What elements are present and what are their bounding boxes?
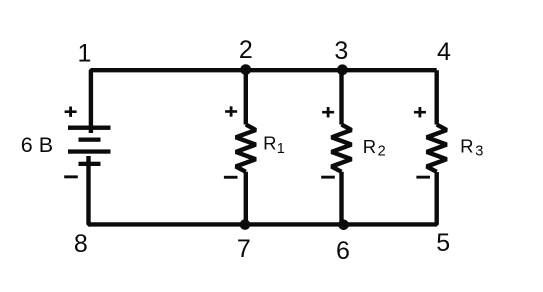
node 6 junction dot xyxy=(338,220,349,231)
svg-text:4: 4 xyxy=(437,38,451,66)
battery - polarity mark xyxy=(64,175,78,178)
resistor R3 xyxy=(427,125,447,172)
battery B1 plate short xyxy=(79,138,101,142)
node 2 junction dot xyxy=(240,64,251,75)
svg-text:R2: R2 xyxy=(363,136,386,160)
battery B1 plate short bottom (-) xyxy=(79,162,101,166)
battery + polarity mark xyxy=(65,110,77,113)
R3 + polarity mark xyxy=(414,111,426,114)
svg-text:7: 7 xyxy=(237,235,251,263)
wire R2 bottom lead xyxy=(339,172,343,225)
svg-text:3: 3 xyxy=(334,37,348,65)
svg-text:R3: R3 xyxy=(460,135,483,159)
svg-text:6: 6 xyxy=(336,237,350,265)
R2 - polarity mark xyxy=(321,176,335,179)
R1 - polarity mark xyxy=(224,176,238,179)
resistor R2 xyxy=(332,125,352,172)
wire R1 bottom lead xyxy=(244,172,248,225)
svg-text:6 В: 6 В xyxy=(21,133,53,157)
battery B1 plate long top (+) xyxy=(68,126,111,130)
R2 + polarity mark xyxy=(322,111,334,114)
svg-text:2: 2 xyxy=(239,36,253,64)
wire R2 top lead xyxy=(339,70,343,124)
R3 - polarity mark xyxy=(416,176,430,179)
node 3 junction dot xyxy=(337,64,348,75)
svg-text:5: 5 xyxy=(436,229,450,257)
wire R1 top lead xyxy=(244,70,248,124)
wire bottom rail nodes 8-7-6-5 xyxy=(89,172,437,224)
wire top rail nodes 1-2-3-4 xyxy=(91,70,437,133)
R1 + polarity mark xyxy=(225,110,237,113)
svg-text:8: 8 xyxy=(74,230,88,258)
node 7 junction dot xyxy=(240,219,251,230)
wire left bottom lead battery to node 8 xyxy=(89,156,91,224)
resistor R1 xyxy=(236,125,256,172)
svg-text:1: 1 xyxy=(78,39,92,67)
svg-text:R1: R1 xyxy=(263,133,285,157)
wire R3 top lead xyxy=(435,70,439,124)
battery B1 plate long xyxy=(68,149,111,153)
